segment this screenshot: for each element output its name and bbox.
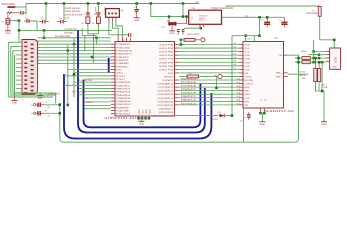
junction IC3 bottom x260.5 <box>259 112 262 115</box>
pin X1 left pad 9 <box>24 75 27 76</box>
wire x183 down <box>182 4 184 17</box>
wire bus row 12 <box>179 83 239 85</box>
pin IC1 left stub 7 <box>111 62 115 64</box>
pin C4 top <box>87 11 89 13</box>
svg-text:P3B5/T1: P3B5/T1 <box>116 59 129 62</box>
pin IC1 right stub 3 <box>175 51 179 53</box>
pin IC1 left stub 8 <box>111 65 115 67</box>
svg-text:D5/DC1: D5/DC1 <box>181 95 197 98</box>
capacitor C14 body <box>282 22 288 25</box>
pin IC1 left stub 1 <box>111 43 115 45</box>
resistor R5 body <box>314 68 317 81</box>
pin IC1 left stub 5 <box>111 56 115 58</box>
svg-text:UAD4 PA4: UAD4 PA4 <box>159 58 174 61</box>
wire usb row2 <box>308 54 326 56</box>
diode D1 zigzag <box>7 12 12 14</box>
junction (181,44.5) <box>180 43 183 46</box>
capacitor C10 bars above MCU <box>129 33 131 37</box>
wire x322.1 low <box>323 91 325 122</box>
pin X1 left pad 12 <box>24 88 27 89</box>
junction C1 rail <box>59 104 62 107</box>
wire x44 down to ladder <box>43 30 45 37</box>
svg-text:Q4-Z4: Q4-Z4 <box>299 71 306 74</box>
pin IC1 bottom stub 4 <box>148 116 150 118</box>
junction top rail x183 <box>182 2 185 5</box>
wire rail y30.4 to MCU <box>19 29 112 31</box>
capacitor C7 electrolytic body <box>6 19 10 25</box>
junction R5 top <box>314 57 317 60</box>
ground below C8 <box>134 18 140 22</box>
svg-text:AT89C5131-24TC: AT89C5131-24TC <box>104 116 141 120</box>
pin C8 bottom <box>136 12 138 18</box>
svg-text:(TQC3)RC3: (TQC3)RC3 <box>157 93 174 96</box>
wire from SJ1 to node at x26 <box>15 6 26 8</box>
wire C1 to gnd rail <box>44 104 60 106</box>
svg-text:-RD: -RD <box>244 90 250 93</box>
junction IC3 bottom x264.3 <box>263 112 266 115</box>
pin R5 bottom <box>314 82 316 91</box>
wire gnd drop x14.5 <box>14 55 16 97</box>
wire diode D1 to C9 <box>12 12 20 14</box>
pin C14 bottom <box>284 25 286 27</box>
wire L1 to USB vcc <box>320 16 335 48</box>
wire IC1 left row low 10 <box>84 97 111 99</box>
wire bus row 9 <box>179 72 239 74</box>
junction usb (319,54.7) <box>318 53 321 56</box>
ground usb <box>321 122 327 126</box>
junction (232,115.6) <box>231 114 234 117</box>
capacitor C4 bars <box>86 13 90 15</box>
pin X1 left pad 1 <box>24 42 27 43</box>
pin X1 right stub row 8 <box>38 59 40 61</box>
wire R3 right <box>310 57 325 59</box>
pin X1 right pad 19 <box>31 65 34 66</box>
pin IC1 right stub 9 <box>175 72 179 74</box>
svg-text:2Q/JN(1/B: 2Q/JN(1/B <box>79 79 93 82</box>
wire IC1 left row low 1 <box>68 69 111 71</box>
pin X1 left pad 2 <box>24 46 27 47</box>
wire reset row <box>179 39 184 41</box>
resistor R2 body <box>187 75 199 78</box>
wire x74 drop <box>73 38 75 97</box>
pin X1 left pad 8 <box>24 71 27 72</box>
pin SL811 left stub 2 <box>239 47 243 49</box>
pin IC1 top stub 2 <box>121 36 123 41</box>
pin J1-1 stub <box>108 17 110 21</box>
bus line 1 (left outer) <box>78 30 205 132</box>
wire R3 left <box>295 57 302 59</box>
junction (44,37.8) <box>43 37 46 40</box>
pin C5 low <box>97 24 99 27</box>
junction (74,74.3) <box>73 73 76 76</box>
junction usb (313.6,51.4) <box>312 50 315 53</box>
svg-text:UAD6 PA6: UAD6 PA6 <box>159 65 174 68</box>
pin SL811 left stub 18 <box>239 104 243 106</box>
pin IC1 left stub 2 <box>111 46 115 48</box>
wire TP2 right <box>222 75 239 77</box>
pin X1 right pad 17 <box>31 56 34 57</box>
wire osc gnd left <box>184 27 201 29</box>
pin X1 right pad 15 <box>31 48 34 49</box>
pin X1 right stub row 6 <box>38 53 40 55</box>
pin X3-2 stub <box>326 54 330 56</box>
junction IC1 bottom 2 <box>141 117 144 120</box>
ground below C7 <box>5 31 11 35</box>
wire bus row 16 <box>179 97 239 99</box>
svg-text:GND: GND <box>169 32 175 35</box>
svg-text:RESET: RESET <box>164 75 174 78</box>
svg-text:VCC: VCC <box>116 68 122 71</box>
wire C4C5 join <box>88 26 99 33</box>
wire x150.8 down <box>150 4 152 17</box>
junction top rail x87.9 <box>87 2 90 5</box>
junction ladder (92,57) <box>91 56 94 59</box>
resistor below C4 body <box>86 17 90 24</box>
pin Y2 left up <box>168 17 170 23</box>
svg-text:XTAL2: XTAL2 <box>116 75 126 78</box>
svg-text:P3B0/RXD: P3B0/RXD <box>116 43 131 46</box>
wire C6 to y30.4 rail <box>33 21 37 30</box>
svg-text:1k5A: 1k5A <box>301 50 307 53</box>
pin X1 right stub row 4 <box>38 46 40 48</box>
pin IC1 right stub 11 <box>175 79 179 81</box>
wire x181 join <box>180 40 182 45</box>
junction top rail x64 <box>63 2 66 5</box>
pin IC1 left stub 17 <box>111 94 115 96</box>
pin X1 right stub row 1 <box>38 37 40 39</box>
pin IC1 left stub 4 <box>111 53 115 55</box>
wire R4 right <box>310 61 325 63</box>
bus stub near IC1 <box>108 58 110 73</box>
junction (19,30.4) <box>18 29 21 32</box>
pin IC1 right stub 7 <box>175 65 179 67</box>
svg-text:UAD7 PA7: UAD7 PA7 <box>159 68 174 71</box>
wire X1 left stub row 4 <box>16 54 22 56</box>
svg-text:P0B4/AD4: P0B4/AD4 <box>116 94 131 97</box>
pin J1-3 stub <box>115 17 117 21</box>
pin J1-2 stub <box>111 17 113 21</box>
pin IC1 left stub 13 <box>111 81 115 83</box>
wire vertical node x26 <box>25 4 27 15</box>
wire IC1 left row low 12 <box>84 105 111 107</box>
pin R5 top <box>314 58 316 68</box>
wire y115.6 right part <box>225 115 232 117</box>
wire xtal row <box>288 73 308 75</box>
wire IC1 left row low 7 <box>79 87 111 89</box>
pin IC1 left stub 11 <box>111 75 115 77</box>
pin IC1 right stub 18 <box>175 104 179 106</box>
svg-text:ALE: ALE <box>168 72 174 75</box>
wire CK row right <box>199 75 218 77</box>
wire R4 left <box>295 61 302 63</box>
pin X1 right pad 18 <box>31 61 34 62</box>
svg-text:-CPQ: -CPQ <box>244 75 251 78</box>
pin SL811 left stub 10 <box>239 75 243 77</box>
pin SL811 left stub 7 <box>239 65 243 67</box>
wire x93.6 drop <box>93 34 95 64</box>
pin J1-2 pad <box>112 13 114 15</box>
svg-text:DAL C: DAL C <box>322 83 328 86</box>
svg-text:(TQC5)RC5: (TQC5)RC5 <box>157 100 174 103</box>
junction top rail x98.2 <box>97 2 100 5</box>
wire J1 pin2 to MCU top pin <box>112 22 118 37</box>
svg-text:RST: RST <box>244 100 250 103</box>
wire IC3 gnd <box>261 113 265 122</box>
inductor L1 body <box>318 6 321 16</box>
svg-text:RNCA: RNCA <box>299 74 306 77</box>
junction usb (313.6,58.1) <box>312 57 315 60</box>
svg-text:200mH: 200mH <box>306 12 318 15</box>
wire ladder row 4 <box>40 46 111 48</box>
pin IC1 right stub 4 <box>175 54 179 56</box>
svg-text:CM: CM <box>244 104 248 107</box>
svg-text:VSS0: VSS0 <box>138 108 141 114</box>
pin SL811 left stub 6 <box>239 61 243 63</box>
wire bus row 13 <box>179 86 239 88</box>
wire X1 left stub row 1 <box>16 41 22 43</box>
svg-text:GND 7: GND 7 <box>199 19 205 22</box>
wire IC1 left row low 13 <box>84 108 111 110</box>
wire bus row 4 <box>179 54 239 56</box>
wire serial 1 stub <box>9 41 16 43</box>
wire x46 to C3 <box>45 4 47 21</box>
capacitor C15 bars <box>247 112 251 120</box>
wire serial 2 <box>11 47 56 96</box>
pin X1 left pad 3 <box>24 50 27 51</box>
capacitor C9 bars <box>21 11 23 14</box>
capacitor C13 body <box>264 22 270 25</box>
pin X1 left pad 10 <box>24 79 27 80</box>
pin IC1 left stub 19 <box>111 100 115 102</box>
wire X1 left stub row 5 <box>16 58 22 60</box>
pin IC1 top stub 3 <box>126 38 128 42</box>
wire x243.5 drop <box>243 108 245 142</box>
pin Q1 bottom1 <box>199 24 201 28</box>
connector X1 body <box>22 40 38 95</box>
ground X1 shield <box>37 96 43 100</box>
svg-text:TB: TB <box>120 9 123 12</box>
svg-text:3.3V: 3.3V <box>247 37 252 40</box>
pin IC3 bottom x264.3 <box>263 108 265 113</box>
connector USB X3 body <box>330 48 341 69</box>
svg-text:EN /D2: EN /D2 <box>212 118 220 121</box>
bus line 3 (inner) <box>84 80 201 128</box>
pin X1 shield <box>39 92 41 95</box>
ground below IC1 <box>139 121 145 125</box>
svg-text:D-: D- <box>260 98 263 100</box>
svg-text:GND: GND <box>139 122 145 125</box>
capacitor C12 bars <box>182 30 185 35</box>
svg-text:P0B3/AD3: P0B3/AD3 <box>116 91 131 94</box>
svg-text:P0B5/AD5: P0B5/AD5 <box>116 97 131 100</box>
svg-text:XTAL1: XTAL1 <box>276 75 283 78</box>
pin X1 right pad 16 <box>31 52 34 53</box>
pin Y2 bottom <box>171 25 173 31</box>
wire IC1 left row low 3 <box>64 75 111 77</box>
pin IC1 left stub 3 <box>111 50 115 52</box>
svg-text:P0B0/AD0: P0B0/AD0 <box>116 81 131 84</box>
pin IC1 right stub 13 <box>175 86 179 88</box>
wire VCC top rail <box>26 3 199 5</box>
resistor R6 body <box>318 68 321 81</box>
pin C7 top <box>7 14 9 18</box>
svg-text:DGND: DGND <box>64 31 74 34</box>
wire ladder row 3 <box>40 43 111 45</box>
wire ladder row 9 <box>40 62 111 64</box>
svg-text:P2B1/A9: P2B1/A9 <box>116 110 129 113</box>
svg-text:-CS: -CS <box>244 97 250 100</box>
junction usb (298.5,58.1) <box>297 57 300 60</box>
pin X1 right stub row 5 <box>38 50 40 52</box>
svg-text:AVCC: AVCC <box>116 72 123 75</box>
svg-text:TQSC1600808: TQSC1600808 <box>211 7 234 10</box>
wire rail to C5 <box>97 4 99 11</box>
svg-text:SP: SP <box>196 1 200 4</box>
pin SL811 left stub 15 <box>239 93 243 95</box>
pin IC1 left stub 10 <box>111 72 115 74</box>
wire CM to pack <box>288 54 299 56</box>
svg-text:IC5: IC5 <box>191 7 195 10</box>
pin J1-3 pad <box>115 13 117 15</box>
svg-text:1 F: 1 F <box>161 26 165 29</box>
wire osc out IN2 <box>222 16 285 18</box>
junction (44,30.4) <box>43 29 46 32</box>
pin SL811 left stub 16 <box>239 97 243 99</box>
wire y115.6 left part <box>152 115 219 117</box>
bus line 2 <box>64 74 211 139</box>
pin SL811 left stub 8 <box>239 68 243 70</box>
wire X1 left stub row 13 <box>16 92 22 94</box>
svg-text:D7/DC3: D7/DC3 <box>181 102 197 105</box>
junction usb (298.5,62.2) <box>297 61 300 64</box>
pin IC3 CM stub <box>284 54 288 56</box>
pin IC1 right stub 5 <box>175 58 179 60</box>
svg-text:P2B0/A8: P2B0/A8 <box>116 106 129 109</box>
pin X1 right pad 25 <box>31 90 34 91</box>
wire top right rail y6 <box>226 5 320 7</box>
svg-text:EA/VPP: EA/VPP <box>163 79 174 82</box>
svg-text:F GND: F GND <box>322 86 329 89</box>
svg-text:VSS3: VSS3 <box>149 108 152 114</box>
svg-text:(TQC1)RC1: (TQC1)RC1 <box>157 86 174 89</box>
pin IC1 bottom stub 2 <box>141 116 143 118</box>
pin C7 bottom <box>7 24 9 31</box>
wire bus row 5 <box>179 58 239 60</box>
wire IC1 left row low 9 <box>79 94 111 96</box>
junction osc pin <box>200 27 203 30</box>
pin SL811 left stub 5 <box>239 58 243 60</box>
wire bus row 6 <box>179 61 239 63</box>
wire X1 left stub row 10 <box>16 79 22 81</box>
junction C2 rail <box>59 112 62 115</box>
capacitor C1 <box>31 101 50 109</box>
junction (181,39.8) <box>180 39 183 42</box>
pin gnd stub x14.5 <box>14 96 16 100</box>
pin IC1 left stub 23 <box>111 113 115 115</box>
pin SL811 left stub 12 <box>239 83 243 85</box>
wire gnd jog <box>322 90 324 92</box>
pin C4 low <box>87 24 89 27</box>
capacitor C5 polarized <box>57 17 67 23</box>
wire bus row 11 <box>179 79 239 81</box>
wire bus row 17 <box>179 100 239 102</box>
svg-text:(TQC4)RC4: (TQC4)RC4 <box>157 97 174 100</box>
wire x64 to C5 <box>63 4 65 21</box>
svg-text:GND: GND <box>260 123 266 126</box>
pin IC1 right stub 15 <box>175 93 179 95</box>
pin SL811 left stub 1 <box>239 44 243 46</box>
svg-text:P3B6/WR: P3B6/WR <box>116 62 129 65</box>
testpoint TP1 circle <box>201 38 205 42</box>
pin IC3 top2 <box>253 36 255 42</box>
svg-text:GND: GND <box>12 102 18 105</box>
pin X1 left pad 5 <box>24 58 27 59</box>
wire x322.1 vert <box>321 62 323 91</box>
wire IC1 left row low 6 <box>64 84 111 86</box>
pin IC1 left stub 9 <box>111 68 115 70</box>
pin IC1 left stub 15 <box>111 87 115 89</box>
svg-text:INTRQ: INTRQ <box>244 79 253 82</box>
wire x67.8 drop <box>67 44 69 105</box>
svg-text:IC3: IC3 <box>274 37 278 40</box>
wire IC1 left row low 2 <box>74 72 111 74</box>
wire X1 left stub row 2 <box>16 46 22 48</box>
wire ladder row 6 <box>40 53 111 55</box>
capacitor C11 bars <box>177 30 180 35</box>
oscillator Q1 body <box>189 10 222 24</box>
pin X3-3 stub <box>326 57 330 59</box>
pin IC1 left stub 20 <box>111 103 115 105</box>
wire y20.7 from C7 to node <box>10 20 19 22</box>
pin IC1 left stub 21 <box>111 106 115 108</box>
pin IC3 xtal1 stub <box>284 75 288 77</box>
svg-text:SL811HST-AC: SL811HST-AC <box>264 109 294 113</box>
pin IC1 left stub 18 <box>111 97 115 99</box>
wire CK row left <box>179 75 187 77</box>
pin X1 left pad 6 <box>24 63 27 64</box>
pin IC1 right stub 1 <box>175 44 179 46</box>
junction top rail x150.8 <box>150 2 153 5</box>
pin X1 right pad 20 <box>31 69 34 70</box>
svg-text:USB: USB <box>334 57 338 63</box>
svg-text:XTAL1: XTAL1 <box>116 78 126 81</box>
pin IC3 bottom x260.5 <box>260 108 262 113</box>
pin X1 right stub row 9 <box>38 62 40 64</box>
pin C5 top <box>97 11 99 13</box>
svg-text:CK: CK <box>189 72 193 75</box>
resistor R4 body <box>302 61 310 64</box>
svg-text:UAD0 PA0: UAD0 PA0 <box>159 44 174 47</box>
pin IC1 bottom stub 1 <box>138 116 140 118</box>
svg-text:UAD3 PA3: UAD3 PA3 <box>159 54 174 57</box>
wire J1 pin3 to MCU top pin2 <box>116 22 123 37</box>
junction y16.6 x186.5 <box>185 15 188 18</box>
svg-text:GND: GND <box>321 123 327 126</box>
pin IC1 left stub 12 <box>111 78 115 80</box>
junction R6 top <box>318 61 321 64</box>
pin IC1 right stub 6 <box>175 61 179 63</box>
wire IC1 left row low 5 <box>74 81 111 83</box>
wire bus row 3 <box>179 51 239 53</box>
junction usb (319,58.1) <box>318 57 321 60</box>
pin IC3 top1 <box>245 36 247 42</box>
wire X1 left stub row 9 <box>16 75 22 77</box>
wire x232 drop <box>231 36 233 116</box>
junction usb (322.1,62.2) <box>321 61 324 64</box>
wire ground loop <box>60 55 299 142</box>
svg-text:P0B6/AD6: P0B6/AD6 <box>116 100 131 103</box>
pin IC1 bottom stub 3 <box>145 116 147 118</box>
